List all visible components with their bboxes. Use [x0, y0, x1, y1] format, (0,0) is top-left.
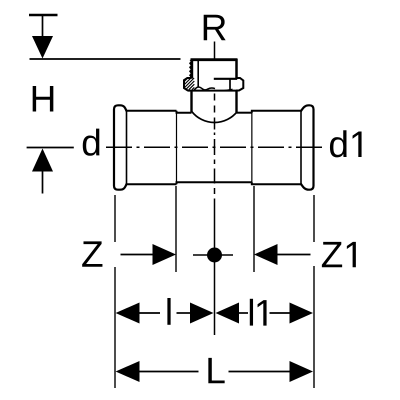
horizontal centerline	[106, 146, 322, 148]
thread inner root line	[197, 61, 199, 88]
break squiggle line	[194, 87, 215, 90]
nut front face top edge	[214, 78, 237, 80]
reference line H top	[30, 58, 181, 60]
dimension H top tick	[29, 14, 58, 16]
dimension Z arrow	[121, 254, 155, 256]
label l1	[250, 299, 267, 326]
left step top	[177, 111, 192, 113]
left bead	[114, 105, 127, 189]
thread right edge	[235, 59, 238, 79]
right bead crease	[300, 111, 302, 184]
branch column right edge	[235, 91, 237, 113]
label d	[83, 129, 100, 156]
center point cross line	[193, 254, 233, 256]
left socket bottom	[126, 183, 177, 185]
dimension l right arrow	[177, 312, 192, 314]
d leader line	[27, 147, 74, 149]
body top right segment	[237, 112, 252, 114]
label L	[208, 358, 224, 383]
dimension H top arrow	[42, 15, 44, 38]
center point dot	[207, 248, 222, 263]
hatch section cut	[184, 78, 194, 90]
dimension L left arrow	[116, 361, 140, 382]
extension line left step	[175, 186, 177, 272]
left socket top	[126, 110, 177, 112]
label Z	[82, 241, 102, 266]
left bead crease	[126, 111, 128, 184]
thread left serrated edge	[189, 59, 193, 79]
label l	[167, 298, 170, 325]
nut outline right	[236, 78, 243, 91]
label R	[204, 15, 226, 40]
right step bottom	[252, 182, 302, 184]
extension line left end	[114, 195, 116, 242]
nut hex face line	[229, 79, 231, 90]
nut bottom chamfer wedge	[223, 89, 233, 91]
label Z1	[322, 242, 356, 267]
saddle arc	[192, 112, 237, 123]
dimension l1 left arrow	[216, 303, 240, 324]
nut outline left	[184, 78, 192, 91]
extension line right end	[313, 195, 315, 242]
dimension H bottom arrow	[32, 149, 53, 172]
nut bottom edge	[188, 90, 237, 92]
right step edge line	[251, 113, 253, 183]
extension line right step	[253, 186, 255, 272]
dimension l1 right arrow	[270, 312, 291, 314]
label H	[33, 86, 54, 111]
right step top	[252, 111, 302, 113]
right bead	[301, 105, 314, 189]
left step edge line	[176, 113, 178, 183]
branch column left edge	[190, 91, 192, 113]
label d1	[330, 130, 362, 157]
thread top bar	[191, 58, 238, 61]
R leader / vertical centerline	[214, 42, 216, 336]
dimension l left arrow	[116, 303, 140, 324]
dimension L right arrow	[229, 371, 291, 373]
dimension Z1 arrow	[254, 244, 278, 265]
left step bottom	[177, 182, 252, 184]
